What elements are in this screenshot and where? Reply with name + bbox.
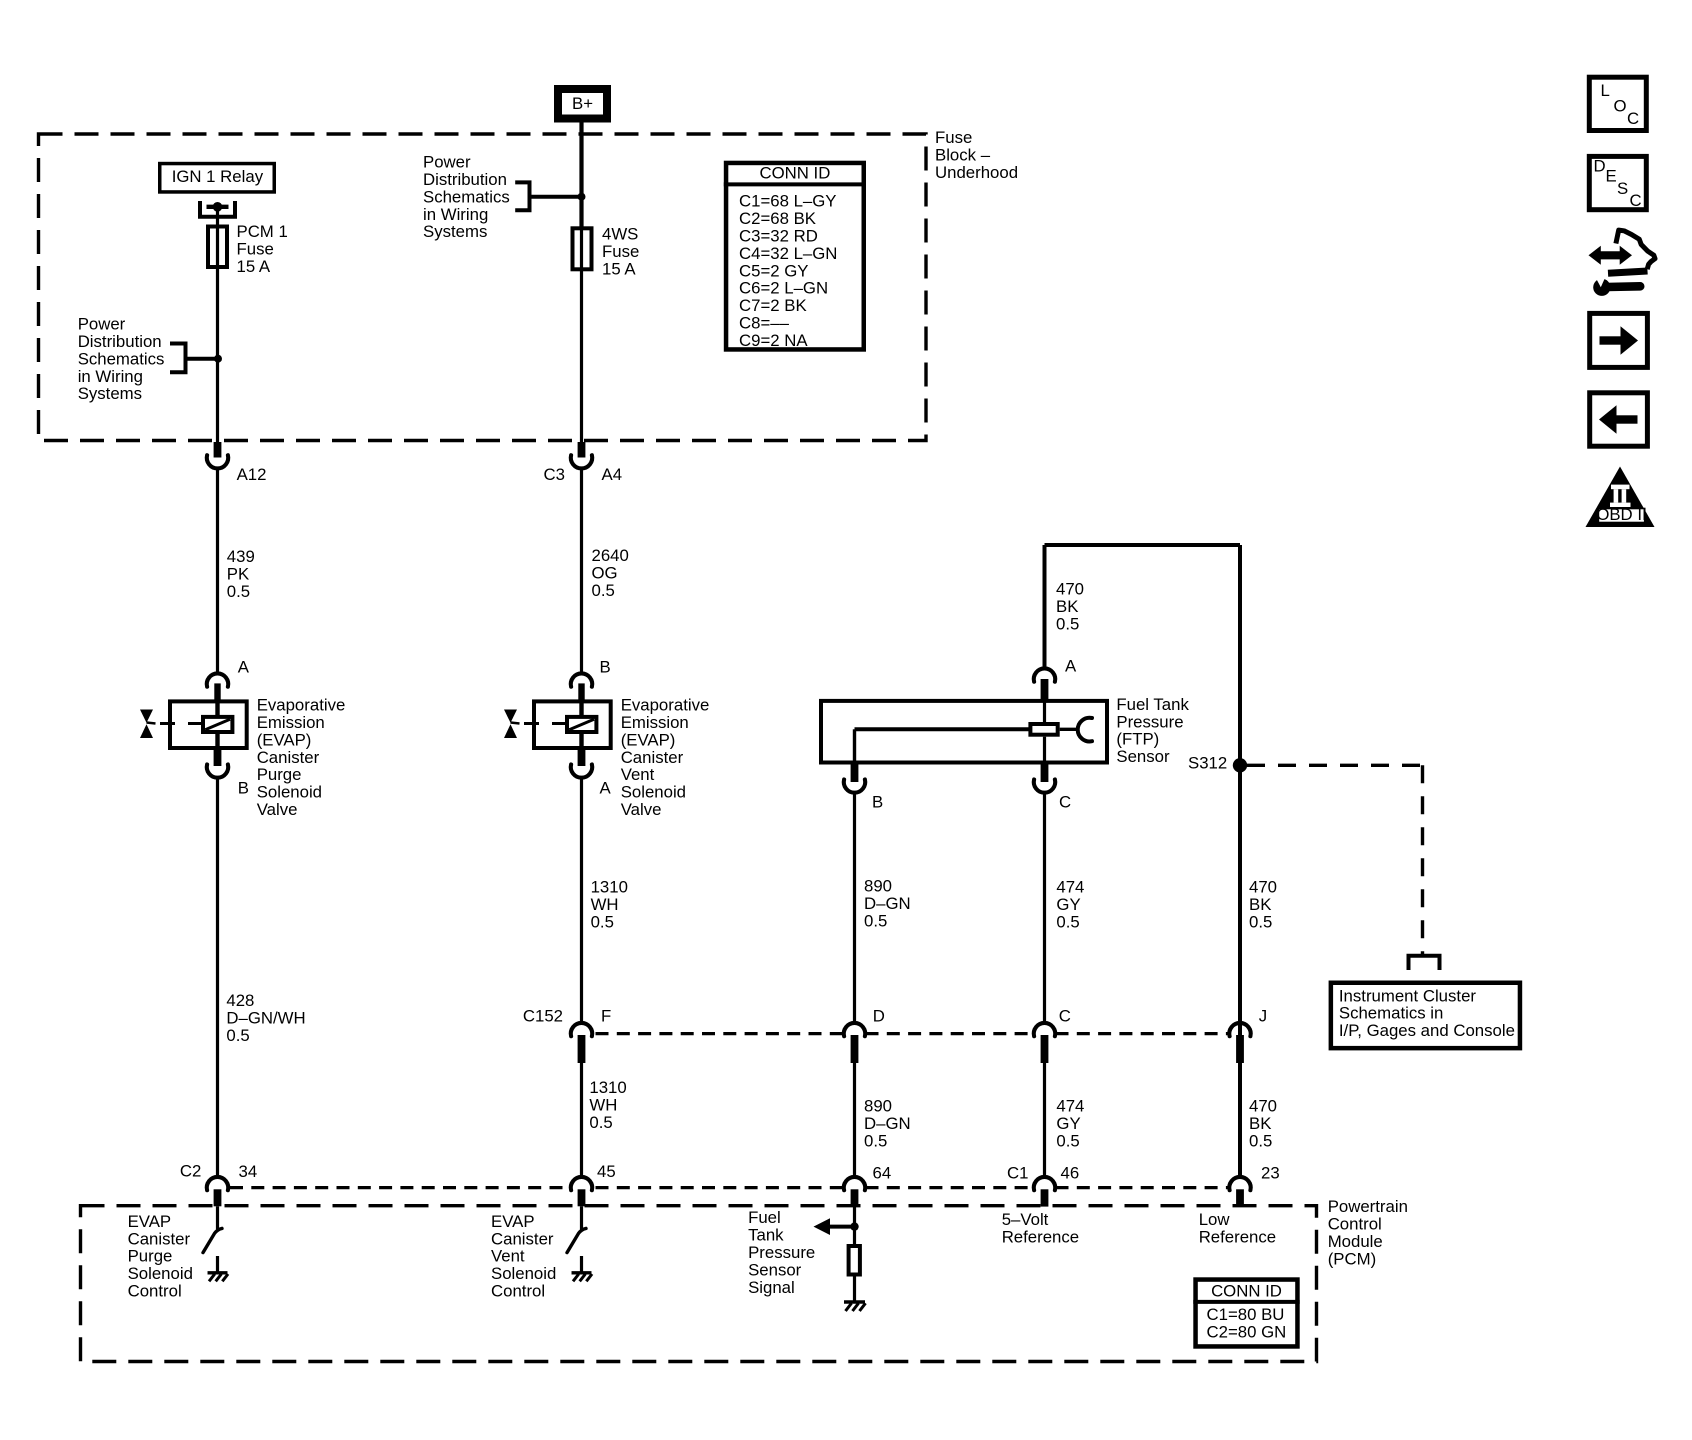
svg-text:Solenoid: Solenoid xyxy=(257,783,322,802)
svg-text:0.5: 0.5 xyxy=(1056,1131,1079,1150)
svg-text:Valve: Valve xyxy=(257,800,298,819)
svg-text:CONN ID: CONN ID xyxy=(1211,1281,1282,1300)
svg-text:470: 470 xyxy=(1056,580,1084,599)
svg-text:(EVAP): (EVAP) xyxy=(621,730,676,749)
svg-text:Pressure: Pressure xyxy=(748,1243,815,1262)
svg-text:Fuel Tank: Fuel Tank xyxy=(1116,695,1189,714)
svg-text:BK: BK xyxy=(1249,895,1271,914)
svg-text:Vent: Vent xyxy=(621,765,655,784)
svg-text:C1=80 BU: C1=80 BU xyxy=(1207,1305,1285,1324)
svg-text:Power: Power xyxy=(78,315,126,334)
svg-text:Sensor: Sensor xyxy=(1116,747,1170,766)
svg-text:64: 64 xyxy=(873,1163,892,1182)
svg-text:474: 474 xyxy=(1056,1097,1084,1116)
svg-text:0.5: 0.5 xyxy=(226,1026,249,1045)
svg-text:Powertrain: Powertrain xyxy=(1328,1197,1408,1216)
svg-text:Pressure: Pressure xyxy=(1116,712,1183,731)
svg-text:E: E xyxy=(1606,167,1617,186)
svg-text:0.5: 0.5 xyxy=(864,1131,887,1150)
svg-text:Solenoid: Solenoid xyxy=(621,783,686,802)
svg-text:Signal: Signal xyxy=(748,1278,795,1297)
svg-text:0.5: 0.5 xyxy=(1056,614,1079,633)
svg-text:Systems: Systems xyxy=(423,222,487,241)
svg-text:Evaporative: Evaporative xyxy=(621,696,710,715)
svg-text:C6=2 L–GN: C6=2 L–GN xyxy=(739,279,828,298)
svg-text:46: 46 xyxy=(1061,1163,1080,1182)
svg-text:Sensor: Sensor xyxy=(748,1260,802,1279)
svg-text:Low: Low xyxy=(1199,1210,1231,1229)
svg-text:L: L xyxy=(1601,81,1610,100)
svg-text:D–GN: D–GN xyxy=(864,894,911,913)
svg-text:45: 45 xyxy=(597,1162,616,1181)
svg-text:0.5: 0.5 xyxy=(227,582,250,601)
svg-text:A4: A4 xyxy=(602,465,623,484)
svg-text:34: 34 xyxy=(239,1162,258,1181)
svg-text:C3: C3 xyxy=(544,465,565,484)
svg-text:1310: 1310 xyxy=(589,1078,626,1097)
svg-text:Tank: Tank xyxy=(748,1226,784,1245)
svg-text:C: C xyxy=(1630,191,1642,210)
svg-text:CONN ID: CONN ID xyxy=(759,163,830,182)
svg-text:GY: GY xyxy=(1056,895,1080,914)
svg-text:Underhood: Underhood xyxy=(935,163,1018,182)
svg-text:(PCM): (PCM) xyxy=(1328,1249,1376,1268)
svg-text:A12: A12 xyxy=(237,465,267,484)
svg-text:(EVAP): (EVAP) xyxy=(257,730,312,749)
svg-text:C9=2 NA: C9=2 NA xyxy=(739,331,808,350)
svg-text:C: C xyxy=(1059,1006,1071,1025)
svg-text:Reference: Reference xyxy=(1002,1227,1079,1246)
svg-text:Distribution: Distribution xyxy=(423,170,507,189)
svg-text:Module: Module xyxy=(1328,1232,1383,1251)
svg-text:B: B xyxy=(238,779,249,798)
svg-text:A: A xyxy=(238,658,250,677)
svg-text:2640: 2640 xyxy=(592,546,629,565)
svg-text:Systems: Systems xyxy=(78,384,142,403)
svg-text:0.5: 0.5 xyxy=(864,911,887,930)
svg-text:Emission: Emission xyxy=(257,713,325,732)
svg-text:B: B xyxy=(600,658,611,677)
svg-text:C3=32 RD: C3=32 RD xyxy=(739,226,818,245)
svg-text:C1=68 L–GY: C1=68 L–GY xyxy=(739,192,837,211)
svg-text:Power: Power xyxy=(423,153,471,172)
svg-text:Schematics in: Schematics in xyxy=(1339,1004,1443,1023)
svg-text:474: 474 xyxy=(1056,878,1084,897)
svg-text:Control: Control xyxy=(128,1281,182,1300)
svg-text:C2=80 GN: C2=80 GN xyxy=(1207,1322,1287,1341)
svg-text:Instrument Cluster: Instrument Cluster xyxy=(1339,986,1477,1005)
svg-text:Solenoid: Solenoid xyxy=(491,1264,556,1283)
svg-text:Purge: Purge xyxy=(128,1247,173,1266)
svg-text:GY: GY xyxy=(1056,1114,1080,1133)
svg-text:Block –: Block – xyxy=(935,145,991,164)
svg-text:D: D xyxy=(1594,157,1606,176)
svg-text:C4=32 L–GN: C4=32 L–GN xyxy=(739,244,837,263)
svg-text:C: C xyxy=(1627,109,1639,128)
svg-text:S312: S312 xyxy=(1188,754,1227,773)
svg-text:BK: BK xyxy=(1056,597,1078,616)
svg-text:C5=2 GY: C5=2 GY xyxy=(739,261,809,280)
svg-text:OBD II: OBD II xyxy=(1596,505,1646,524)
svg-text:Control: Control xyxy=(1328,1215,1382,1234)
svg-text:(FTP): (FTP) xyxy=(1116,730,1159,749)
svg-text:Valve: Valve xyxy=(621,800,662,819)
svg-text:0.5: 0.5 xyxy=(1249,912,1272,931)
svg-text:0.5: 0.5 xyxy=(589,1113,612,1132)
svg-text:0.5: 0.5 xyxy=(1249,1131,1272,1150)
svg-text:1310: 1310 xyxy=(591,878,628,897)
svg-text:Canister: Canister xyxy=(621,748,684,767)
svg-text:A: A xyxy=(600,779,612,798)
svg-text:Fuse: Fuse xyxy=(237,240,274,259)
svg-text:470: 470 xyxy=(1249,878,1277,897)
svg-text:470: 470 xyxy=(1249,1097,1277,1116)
svg-text:S: S xyxy=(1617,179,1628,198)
svg-text:890: 890 xyxy=(864,1097,892,1116)
svg-text:0.5: 0.5 xyxy=(592,581,615,600)
svg-text:C152: C152 xyxy=(523,1006,563,1025)
svg-text:D: D xyxy=(873,1006,885,1025)
svg-text:0.5: 0.5 xyxy=(1056,912,1079,931)
svg-text:5–Volt: 5–Volt xyxy=(1002,1210,1049,1229)
svg-text:PK: PK xyxy=(227,564,249,583)
svg-text:EVAP: EVAP xyxy=(128,1212,172,1231)
svg-text:890: 890 xyxy=(864,877,892,896)
svg-text:J: J xyxy=(1259,1006,1267,1025)
svg-text:EVAP: EVAP xyxy=(491,1212,535,1231)
svg-text:D–GN/WH: D–GN/WH xyxy=(226,1009,305,1028)
svg-text:C8=––: C8=–– xyxy=(739,313,790,332)
svg-text:Vent: Vent xyxy=(491,1247,525,1266)
svg-text:Canister: Canister xyxy=(257,748,320,767)
svg-text:15 A: 15 A xyxy=(237,257,271,276)
svg-text:Fuse: Fuse xyxy=(602,242,639,261)
svg-text:B+: B+ xyxy=(572,94,593,113)
svg-text:0.5: 0.5 xyxy=(591,912,614,931)
svg-text:Emission: Emission xyxy=(621,713,689,732)
svg-text:Purge: Purge xyxy=(257,765,302,784)
svg-text:Reference: Reference xyxy=(1199,1227,1276,1246)
svg-text:C7=2 BK: C7=2 BK xyxy=(739,296,807,315)
svg-text:C1: C1 xyxy=(1007,1163,1028,1182)
svg-text:15 A: 15 A xyxy=(602,259,636,278)
svg-text:Schematics: Schematics xyxy=(423,187,510,206)
svg-text:Solenoid: Solenoid xyxy=(128,1264,193,1283)
svg-text:BK: BK xyxy=(1249,1114,1271,1133)
svg-text:Fuel: Fuel xyxy=(748,1208,781,1227)
svg-text:C2: C2 xyxy=(180,1161,201,1180)
svg-text:C: C xyxy=(1059,793,1071,812)
svg-text:Evaporative: Evaporative xyxy=(257,696,346,715)
svg-text:PCM 1: PCM 1 xyxy=(237,222,288,241)
svg-text:in Wiring: in Wiring xyxy=(423,205,488,224)
svg-text:Canister: Canister xyxy=(128,1229,191,1248)
svg-text:D–GN: D–GN xyxy=(864,1114,911,1133)
svg-text:Schematics: Schematics xyxy=(78,349,165,368)
svg-text:WH: WH xyxy=(589,1095,617,1114)
svg-text:in Wiring: in Wiring xyxy=(78,367,143,386)
svg-text:Canister: Canister xyxy=(491,1229,554,1248)
svg-text:IGN 1 Relay: IGN 1 Relay xyxy=(172,167,264,186)
svg-text:439: 439 xyxy=(227,547,255,566)
svg-text:O: O xyxy=(1614,96,1627,115)
svg-text:23: 23 xyxy=(1261,1163,1280,1182)
svg-text:I/P, Gages and Console: I/P, Gages and Console xyxy=(1339,1021,1515,1040)
svg-text:Fuse: Fuse xyxy=(935,128,972,147)
svg-text:F: F xyxy=(601,1006,611,1025)
svg-text:C2=68 BK: C2=68 BK xyxy=(739,209,816,228)
svg-text:B: B xyxy=(872,793,883,812)
svg-text:A: A xyxy=(1065,656,1077,675)
svg-text:Distribution: Distribution xyxy=(78,332,162,351)
svg-text:428: 428 xyxy=(226,991,254,1010)
svg-text:4WS: 4WS xyxy=(602,225,638,244)
svg-text:OG: OG xyxy=(592,563,618,582)
svg-text:WH: WH xyxy=(591,895,619,914)
svg-text:Control: Control xyxy=(491,1281,545,1300)
